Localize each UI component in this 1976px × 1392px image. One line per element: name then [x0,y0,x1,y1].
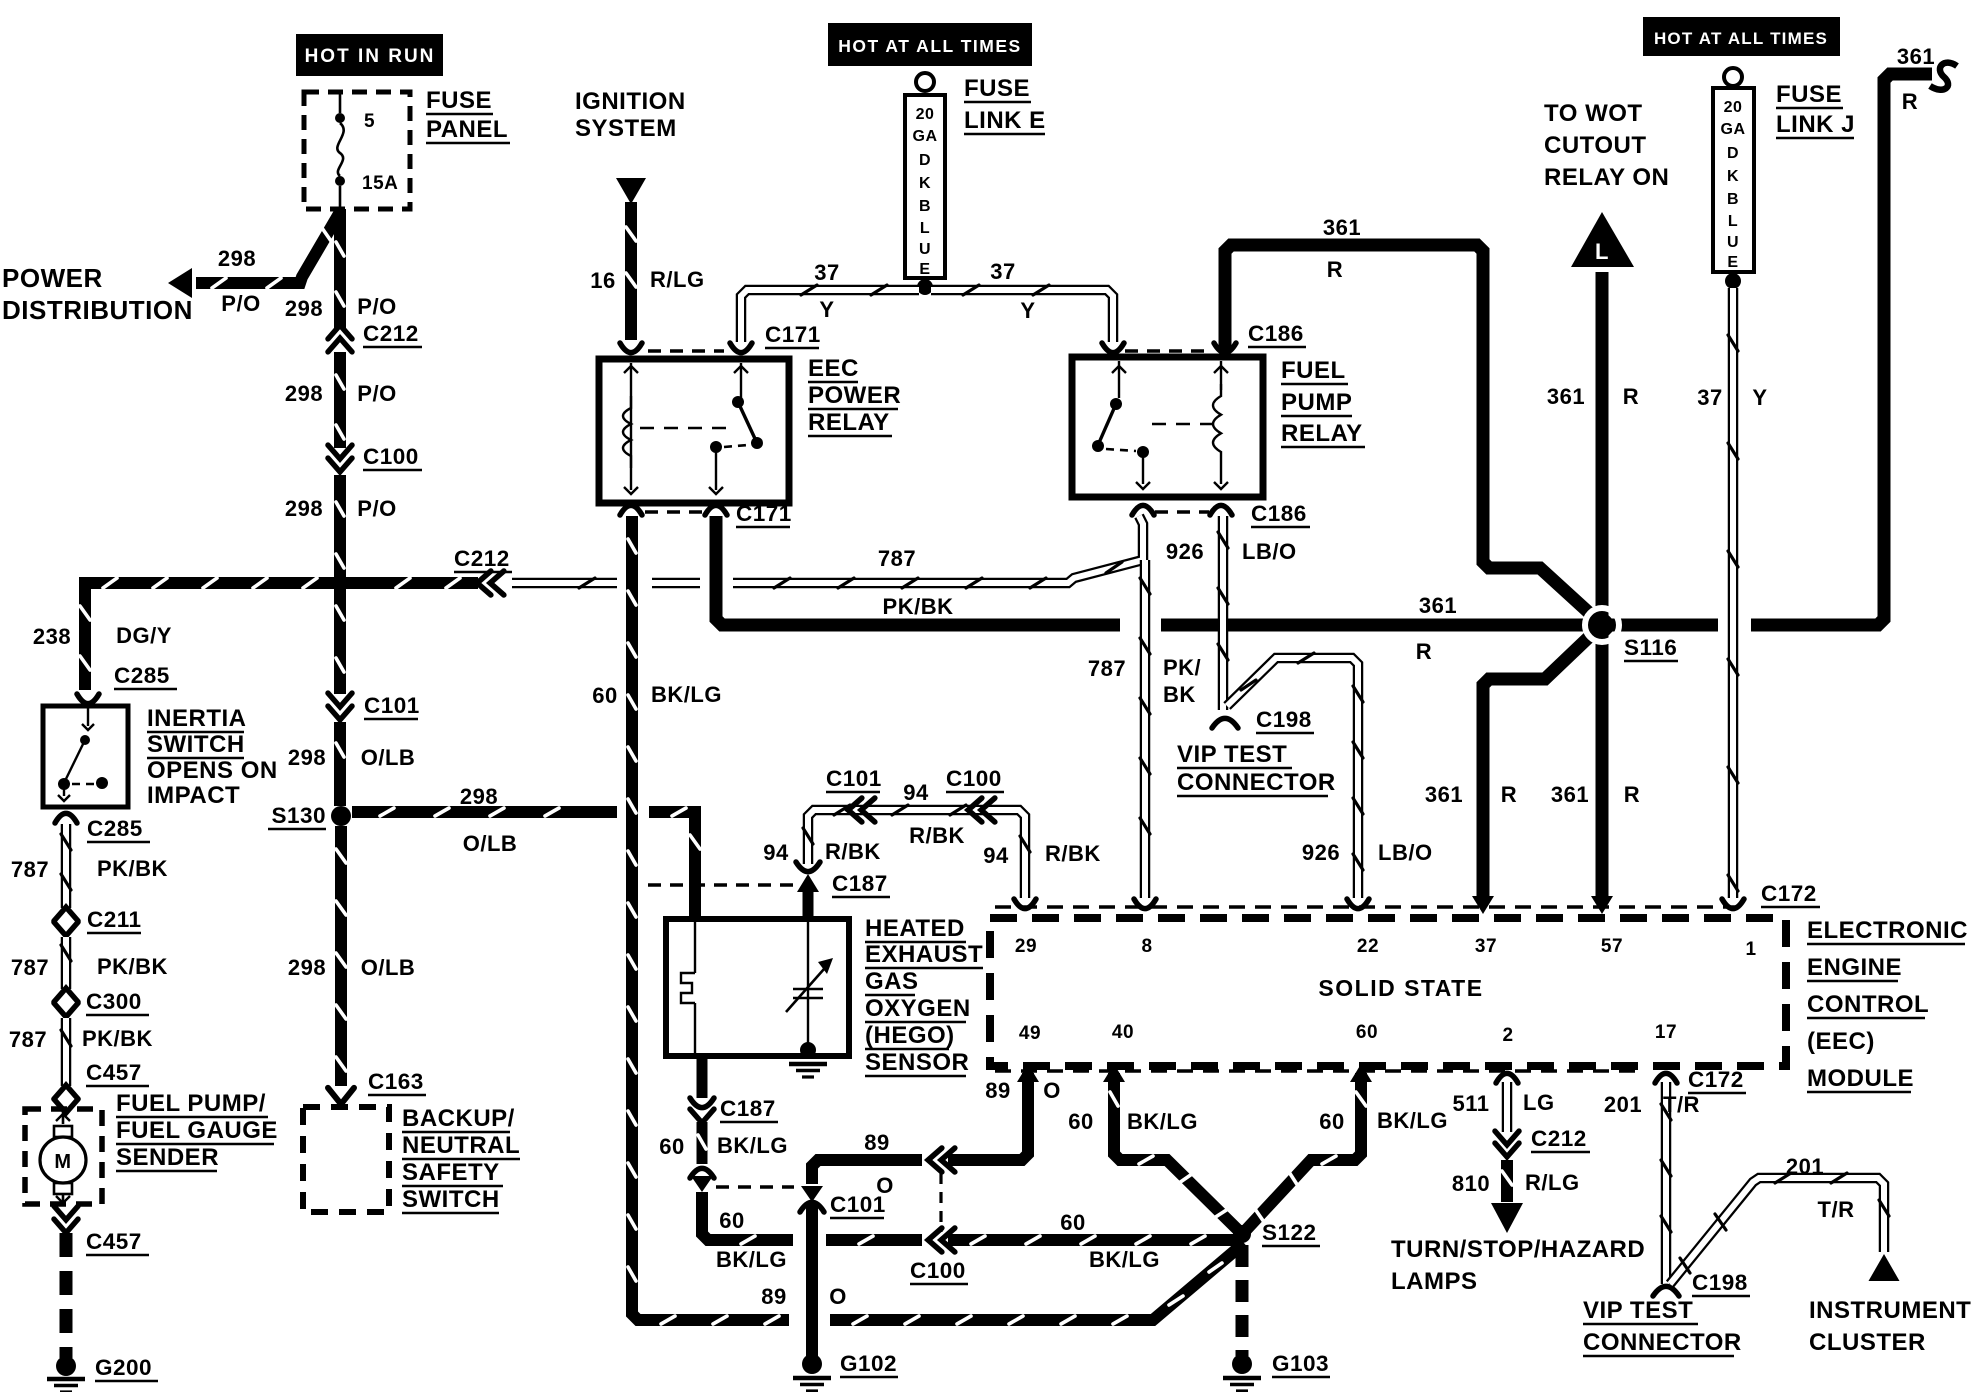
inertia switch internals [58,708,108,801]
wire 787 PK/BK C285 to C211 [61,824,71,908]
svg-text:S130: S130 [271,803,326,828]
svg-text:C198: C198 [1256,707,1312,732]
svg-text:U: U [919,241,931,258]
wire 60 BK/LG C101 to S122 [702,1192,1240,1244]
fuse panel box [304,92,410,209]
ground G102 [793,1354,831,1391]
connector C285 [77,694,99,704]
wire label T/R right [1818,1197,1855,1222]
connector C172 top dashed line [995,905,1748,908]
wire label 60 pin60 [1319,1109,1344,1134]
svg-text:LINK J: LINK J [1776,111,1855,138]
svg-text:K: K [1727,168,1739,185]
svg-text:94: 94 [763,840,789,865]
fuel pump relay name [1281,357,1365,447]
wire label 787 [9,1027,47,1052]
wire label 89 [761,1284,786,1309]
wire label R [1327,257,1343,282]
EEC pin 60 connector [1350,1064,1372,1082]
svg-text:37: 37 [1697,385,1722,410]
wire label 361 [1323,215,1361,240]
svg-text:D: D [1727,145,1739,162]
svg-text:EEC: EEC [808,355,859,382]
connector C212 in-line [477,571,504,595]
svg-text:926: 926 [1166,539,1204,564]
svg-text:787: 787 [11,857,49,882]
svg-text:C212: C212 [363,321,419,346]
wire label 94 [903,780,929,805]
wire label PK/BK [97,954,168,979]
svg-text:C100: C100 [910,1258,966,1283]
svg-text:Y: Y [1020,298,1035,323]
ground G103 [1223,1354,1261,1391]
EEC pin 1 connector [1722,899,1744,909]
wire label 787 [11,955,49,980]
connector C171 left top [620,343,642,353]
wire label P/O [357,294,396,319]
wire label P/O [357,381,396,406]
svg-text:361: 361 [1425,782,1463,807]
connector C198 vip [1212,718,1238,728]
wire label R [1623,384,1639,409]
splice label S116 [1624,635,1678,661]
EEC pin 37 label [1475,936,1497,957]
EEC pin 29 connector [1014,899,1036,909]
svg-text:O/LB: O/LB [361,955,416,980]
svg-text:C172: C172 [1688,1067,1744,1092]
svg-text:361: 361 [1419,593,1457,618]
EEC pin 17 label [1655,1022,1677,1043]
connector label C163 [368,1069,426,1095]
wire label BK/LG right [1089,1247,1160,1272]
wire label 298 [288,955,326,980]
wire 201 T/R to instrument cluster [1670,1173,1889,1284]
wire label 787 [11,857,49,882]
svg-text:238: 238 [33,624,71,649]
wire label R [1416,639,1432,664]
svg-text:PK/BK: PK/BK [97,856,168,881]
wire to G200 ground [60,1233,73,1358]
svg-text:298: 298 [285,496,323,521]
svg-text:O/LB: O/LB [361,745,416,770]
wire 787 PK/BK relay to C212 [512,516,1143,588]
wire label 298 [285,296,323,321]
wire label 201 [1604,1092,1642,1117]
svg-text:16: 16 [590,268,615,293]
EEC pin 22 label [1357,936,1379,957]
svg-text:57: 57 [1601,936,1623,957]
S116 spokes [1483,63,1957,898]
wire 298 P/O to power distribution [196,212,340,288]
svg-text:O/LB: O/LB [463,831,518,856]
connector label C171 [736,501,792,527]
wire label O pin49 [1043,1078,1061,1103]
svg-text:361: 361 [1551,782,1589,807]
connector C101 [328,693,352,720]
svg-text:HOT AT ALL TIMES: HOT AT ALL TIMES [1654,29,1828,48]
svg-text:89: 89 [985,1078,1010,1103]
svg-text:G103: G103 [1272,1351,1329,1376]
EEC pin 40 label [1112,1022,1134,1043]
EEC pin 22 connector [1347,899,1369,909]
ignition system arrow [616,178,646,204]
svg-text:361: 361 [1897,44,1935,69]
svg-text:17: 17 [1655,1022,1677,1043]
power distribution text [2,263,193,325]
svg-text:O: O [1043,1078,1061,1103]
wire label 89 pin49 [985,1078,1010,1103]
svg-text:R: R [1327,257,1343,282]
svg-text:C285: C285 [87,816,143,841]
svg-text:P/O: P/O [221,291,260,316]
svg-text:BACKUP/: BACKUP/ [402,1105,515,1132]
svg-text:R: R [1416,639,1432,664]
wire label 361 [1419,593,1457,618]
fuse rating label 15A [362,173,398,194]
svg-text:CONNECTOR: CONNECTOR [1583,1329,1742,1356]
wire label R pin57 [1624,782,1640,807]
svg-text:T/R: T/R [1818,1197,1855,1222]
svg-text:EXHAUST: EXHAUST [865,941,983,968]
fuse link J name [1776,81,1855,138]
connector C163 [328,1088,354,1104]
svg-text:L: L [1728,213,1738,230]
svg-text:DISTRIBUTION: DISTRIBUTION [2,295,193,325]
HEGO heater element [681,922,695,1053]
wire label Y [819,297,834,322]
connector label C198 [1256,707,1314,733]
svg-text:8: 8 [1141,936,1152,957]
wire label 810 [1452,1171,1490,1196]
fuse link J symbol [1713,68,1754,272]
connector label C101 [830,1192,886,1218]
svg-text:IGNITION: IGNITION [575,88,686,115]
svg-text:C211: C211 [87,907,142,932]
svg-text:C198: C198 [1692,1270,1748,1295]
svg-text:LB/O: LB/O [1378,840,1433,865]
wire 926 LB/O relay to C198 and EEC pin 22 [1218,516,1363,898]
svg-text:PK/BK: PK/BK [883,594,954,619]
svg-text:C171: C171 [736,501,792,526]
wire label 361 top right [1897,44,1935,69]
svg-text:60: 60 [1068,1109,1093,1134]
svg-text:5: 5 [364,111,375,132]
svg-text:G200: G200 [95,1355,152,1380]
HEGO sensing element [786,922,833,1046]
wire label LB/O [1242,539,1297,564]
splice label S130 [268,803,326,829]
svg-text:CONTROL: CONTROL [1807,991,1929,1018]
svg-text:FUSE: FUSE [964,75,1030,102]
svg-text:C101: C101 [826,766,882,791]
svg-text:C100: C100 [946,766,1002,791]
connector label C212 [454,546,512,572]
svg-text:B: B [919,198,931,215]
wire label 926 [1166,539,1204,564]
turn stop hazard arrow [1491,1203,1523,1233]
svg-text:LINK E: LINK E [964,107,1046,134]
wire label R pin37 [1501,782,1517,807]
wire 298 P/O fuse to C212 [336,209,344,328]
svg-text:FUEL: FUEL [1281,357,1346,384]
svg-text:P/O: P/O [357,496,396,521]
svg-text:CLUSTER: CLUSTER [1809,1329,1926,1356]
svg-text:511: 511 [1453,1091,1490,1116]
svg-text:298: 298 [285,296,323,321]
svg-text:RELAY: RELAY [808,409,890,436]
svg-text:SENDER: SENDER [116,1144,219,1171]
wire label 361 pin37 [1425,782,1463,807]
wire label LB/O pin22 [1378,840,1433,865]
svg-text:P/O: P/O [357,381,396,406]
svg-text:HOT AT ALL TIMES: HOT AT ALL TIMES [838,36,1021,56]
inertia switch name [147,705,278,809]
EEC pin 29 label [1015,936,1037,957]
connector label C457 [86,1229,149,1255]
connector label C285 [114,663,177,689]
svg-text:VIP TEST: VIP TEST [1583,1297,1693,1324]
svg-text:C101: C101 [364,693,420,718]
svg-text:94: 94 [903,780,929,805]
connector C100 on 94 wire [968,798,995,822]
svg-text:C285: C285 [114,663,170,688]
splice S116 [1585,608,1619,642]
svg-text:R: R [1624,782,1640,807]
relay C171 bottom dashed link [645,510,702,513]
svg-text:361: 361 [1547,384,1585,409]
ground label G102 [840,1351,898,1377]
svg-text:VIP TEST: VIP TEST [1177,741,1287,768]
instrument cluster arrow [1869,1254,1900,1281]
wire label BK [1163,682,1196,707]
svg-text:PK/BK: PK/BK [97,954,168,979]
wire label PK/BK [97,856,168,881]
wire 787 PK/BK C300 to C457 [61,1018,71,1086]
connector C198 bottom [1653,1286,1679,1296]
svg-text:PANEL: PANEL [426,116,508,143]
svg-text:C457: C457 [86,1060,142,1085]
wire 511 LG EEC pin 2 [1502,1082,1513,1132]
connector label C171 [765,322,821,348]
svg-text:(HEGO): (HEGO) [865,1022,955,1049]
wire label O/LB [361,955,416,980]
svg-text:R: R [1501,782,1517,807]
connector label C186 [1248,321,1306,347]
wire 298 O/LB S130 to HEGO sensor [352,808,700,916]
wire 16 R/LG [626,202,636,340]
svg-text:20: 20 [1724,99,1743,116]
fuse link E symbol [905,73,945,278]
connector C186 right top [1214,343,1236,353]
svg-text:OPENS ON: OPENS ON [147,757,278,784]
svg-text:S116: S116 [1624,635,1677,660]
hot at all times box J [1643,17,1840,56]
svg-text:SWITCH: SWITCH [402,1186,500,1213]
svg-text:E: E [1727,254,1738,271]
wire label R/BK right [1045,841,1101,866]
wire label BK/LG left [716,1247,787,1272]
backup/neutral safety switch name [402,1105,520,1213]
svg-text:C186: C186 [1248,321,1304,346]
svg-text:FUEL PUMP/: FUEL PUMP/ [116,1090,266,1117]
svg-text:C172: C172 [1761,881,1817,906]
connector C187 on 94 wire [796,862,820,918]
svg-text:LG: LG [1523,1090,1555,1115]
connector C172 bottom dashed line [995,1069,1640,1072]
wire 787 PK/BK C211 to C300 [61,937,71,989]
svg-text:SWITCH: SWITCH [147,731,245,758]
EEC pin 8 label [1141,936,1152,957]
svg-text:BK/LG: BK/LG [716,1247,787,1272]
EEC pin 49 connector [1017,1064,1039,1082]
svg-text:298: 298 [285,381,323,406]
connector C211 [54,907,78,936]
svg-text:POWER: POWER [808,382,901,409]
svg-text:298: 298 [288,955,326,980]
svg-text:C187: C187 [720,1096,776,1121]
connector C100 on 89 wire [928,1148,955,1172]
wire label R/LG [1525,1170,1580,1195]
connector label C285 [87,816,150,842]
EEC power relay internals [623,363,763,494]
connector C300 [54,988,78,1017]
fuse link J node [1725,273,1741,289]
svg-text:PK/BK: PK/BK [82,1026,153,1051]
svg-text:U: U [1727,234,1739,251]
svg-text:361: 361 [1323,215,1361,240]
svg-text:298: 298 [460,784,498,809]
EEC module solid state label [1318,975,1483,1001]
wire label LG [1523,1090,1555,1115]
connector C186 left bottom [1132,505,1154,515]
wire label 201 right [1786,1154,1824,1179]
fuse panel HOT IN RUN feed box [296,34,443,76]
connector label C300 [86,989,149,1015]
svg-text:60: 60 [592,683,617,708]
wire label 298 [218,246,256,271]
svg-text:GA: GA [1721,121,1746,138]
svg-text:(EEC): (EEC) [1807,1028,1875,1055]
wire label O/LB [463,831,518,856]
C187 dashed link [648,883,800,886]
wire label O [876,1173,894,1198]
wire label 94 left [763,840,789,865]
svg-text:R: R [1902,89,1918,114]
vip test connector name bottom [1583,1297,1742,1356]
vip test connector name [1177,741,1336,796]
wire 60 BK/LG EEC pin 60 to S122 [1246,1073,1366,1230]
svg-text:R/BK: R/BK [909,823,965,848]
EEC pin 40 connector [1103,1064,1125,1082]
wire label 60 [659,1134,684,1159]
svg-text:CUTOUT: CUTOUT [1544,132,1647,159]
connector label C100 [946,766,1004,792]
wire 60 BK/LG EEC relay to S122 [628,516,1244,1324]
svg-text:926: 926 [1302,840,1340,865]
to WOT cutout relay text [1544,100,1669,191]
fuse position label 5 [364,111,375,132]
svg-text:201: 201 [1604,1092,1642,1117]
connector label C101 [826,766,882,792]
svg-text:OXYGEN: OXYGEN [865,995,971,1022]
svg-text:P/O: P/O [357,294,396,319]
wire label BK/LG pin60 [1377,1108,1448,1133]
EEC module box [990,918,1786,1066]
connector label C211 [87,907,142,933]
instrument cluster text [1809,1297,1971,1356]
EEC pin 2 label [1502,1025,1513,1046]
svg-text:O: O [829,1284,847,1309]
wire label 60 [592,683,617,708]
fuse F5 15A symbol [335,92,345,209]
svg-text:MODULE: MODULE [1807,1065,1914,1092]
svg-text:T/R: T/R [1663,1092,1700,1117]
svg-text:RELAY ON: RELAY ON [1544,164,1669,191]
connector label C186 [1251,501,1310,527]
relay C186 bottom dashed link [1155,510,1209,513]
wire label 89 [864,1130,889,1155]
wire label 37 [990,259,1015,284]
svg-text:C101: C101 [830,1192,886,1217]
svg-text:POWER: POWER [2,263,103,293]
wire 37 Y fuse link E to EEC power relay [741,285,919,342]
wire label Y [1020,298,1035,323]
svg-text:FUEL GAUGE: FUEL GAUGE [116,1117,278,1144]
svg-text:G102: G102 [840,1351,897,1376]
svg-text:37: 37 [814,260,839,285]
connector label C101 [364,693,420,719]
connector C100 on 60 wire [928,1228,955,1252]
wire 60 BK/LG HEGO to C101 [697,1056,708,1098]
wire label 37 [1697,385,1722,410]
EEC pin 49 label [1019,1023,1041,1044]
connector C187 lower [690,1098,714,1123]
fuel pump sender name [116,1090,278,1171]
fuse link E name [964,75,1046,134]
inertia switch box [43,706,128,807]
svg-text:89: 89 [864,1130,889,1155]
connector C457 [54,1085,78,1113]
wire to G103 ground [1236,1245,1249,1356]
connector C212 [328,325,352,352]
wire label PK/ [1163,655,1201,680]
svg-text:R: R [1623,384,1639,409]
svg-text:GAS: GAS [865,968,919,995]
svg-text:94: 94 [983,843,1009,868]
svg-text:S122: S122 [1262,1220,1317,1245]
svg-text:M: M [54,1151,71,1173]
connector C100 [328,445,352,472]
svg-text:C100: C100 [363,444,419,469]
svg-text:C187: C187 [832,871,888,896]
svg-text:TURN/STOP/HAZARD: TURN/STOP/HAZARD [1391,1236,1645,1263]
svg-text:787: 787 [1088,656,1126,681]
connector label C100 [363,444,422,470]
EEC pin 8 connector [1134,899,1156,909]
svg-text:ENGINE: ENGINE [1807,954,1902,981]
svg-text:GA: GA [913,128,938,145]
connector C186 left top [1102,343,1124,353]
ground G200 [47,1356,85,1392]
svg-text:298: 298 [218,246,256,271]
svg-text:LB/O: LB/O [1242,539,1297,564]
wire 361 R EEC relay to S116 [716,516,1586,625]
svg-text:FUSE: FUSE [426,87,492,114]
svg-text:1: 1 [1745,939,1756,960]
wire label DG/Y [116,623,172,648]
svg-text:R/BK: R/BK [825,839,881,864]
EEC pin 2 connector [1496,1073,1518,1083]
